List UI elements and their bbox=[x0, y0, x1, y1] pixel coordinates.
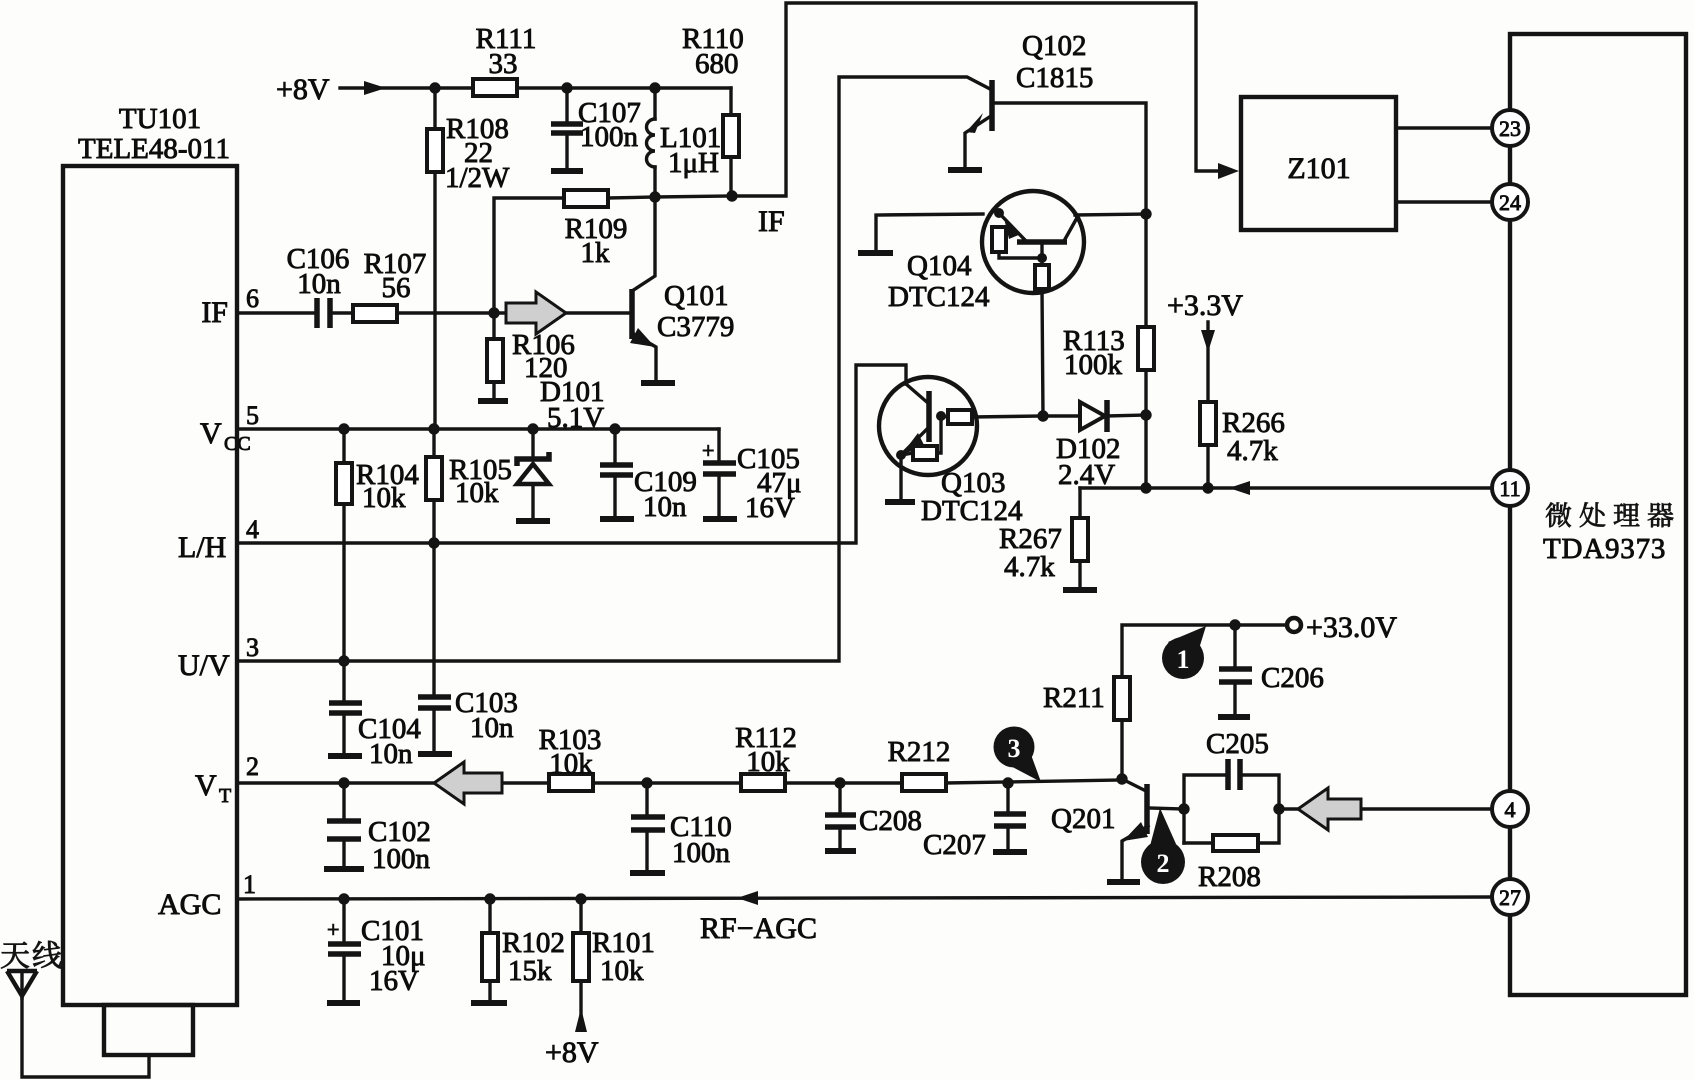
resistor R211 bbox=[1043, 625, 1235, 779]
node VT C208 bbox=[834, 777, 845, 788]
svg-text:R212: R212 bbox=[888, 736, 951, 768]
node C205/R208 right bbox=[1273, 803, 1284, 814]
tuner pin 6 label IF bbox=[201, 284, 259, 329]
svg-text:Q201: Q201 bbox=[1051, 803, 1115, 835]
svg-text:4: 4 bbox=[1505, 797, 1516, 822]
node U/V R104/C104 bbox=[338, 655, 349, 666]
svg-text:24: 24 bbox=[1499, 190, 1521, 215]
svg-text:C207: C207 bbox=[923, 829, 986, 861]
transistor Q103 DTC124 bbox=[879, 377, 1043, 527]
wire L/H pin 4 bbox=[237, 365, 906, 543]
node VT C102 bbox=[338, 777, 349, 788]
svg-text:C205: C205 bbox=[1206, 728, 1269, 760]
svg-text:3: 3 bbox=[246, 633, 259, 662]
signal arrow on pin 4 line bbox=[1298, 788, 1361, 830]
svg-text:T: T bbox=[219, 785, 231, 807]
node AGC C101 bbox=[338, 893, 349, 904]
+3.3V supply to R266 bbox=[1167, 289, 1243, 402]
node Vcc C109 bbox=[609, 423, 620, 434]
inductor L101 bbox=[647, 88, 722, 197]
ground Q102 bbox=[948, 167, 982, 173]
node Vcc R104 bbox=[338, 423, 349, 434]
svg-text:+3.3V: +3.3V bbox=[1167, 289, 1243, 322]
resistor R110 bbox=[682, 23, 744, 196]
node pin11/R113 bbox=[1140, 482, 1151, 493]
svg-text:+: + bbox=[702, 438, 714, 463]
svg-text:2.4V: 2.4V bbox=[1058, 459, 1115, 491]
pin 23 bbox=[1492, 110, 1528, 146]
transistor Q201 bbox=[1051, 779, 1183, 879]
resistor R108 bbox=[427, 88, 510, 429]
wire IF node to Z101 (top route) bbox=[732, 3, 1239, 196]
node L/H R105 bbox=[428, 537, 439, 548]
pin 4 bbox=[1492, 791, 1528, 827]
svg-text:RF−AGC: RF−AGC bbox=[700, 912, 817, 945]
ground C103 bbox=[418, 751, 452, 757]
node D102 anode / Q103 base bbox=[1037, 410, 1048, 421]
wire AGC pin 1 / pin 27 line bbox=[237, 891, 1492, 945]
resistor R113 bbox=[1063, 214, 1154, 414]
svg-text:4: 4 bbox=[246, 515, 259, 544]
node Vcc R105 bbox=[428, 423, 439, 434]
capacitor C110 bbox=[631, 783, 732, 871]
svg-text:10n: 10n bbox=[369, 738, 413, 770]
node AGC R101 bbox=[575, 893, 586, 904]
+8V supply label bbox=[276, 73, 330, 106]
wire Z101 pin24 bbox=[1396, 200, 1492, 203]
transistor Q104 DTC124 bbox=[876, 191, 1146, 416]
node IF out (L101 bottom) bbox=[649, 191, 660, 202]
label IF out bbox=[758, 205, 785, 238]
ground C109 bbox=[600, 516, 634, 522]
antenna symbol bbox=[7, 971, 37, 998]
+33.0V terminal bbox=[1235, 611, 1397, 644]
svg-text:10k: 10k bbox=[549, 748, 593, 780]
svg-text:C1815: C1815 bbox=[1016, 62, 1093, 94]
svg-text:56: 56 bbox=[382, 272, 411, 304]
svg-text:10n: 10n bbox=[470, 712, 514, 744]
svg-text:C3779: C3779 bbox=[657, 311, 734, 343]
svg-text:16V: 16V bbox=[369, 965, 419, 997]
svg-text:5.1V: 5.1V bbox=[547, 402, 604, 434]
svg-text:1: 1 bbox=[243, 870, 256, 899]
wire IF node to R110 bbox=[655, 196, 732, 197]
svg-text:TU101: TU101 bbox=[119, 103, 201, 135]
svg-text:V: V bbox=[195, 769, 217, 802]
svg-text:10k: 10k bbox=[746, 746, 790, 778]
ground Q104 bbox=[858, 250, 893, 256]
tuner sub-box (RF connector) bbox=[104, 1005, 193, 1055]
svg-text:V: V bbox=[200, 417, 222, 450]
svg-text:10n: 10n bbox=[297, 268, 341, 300]
node Q102/Q104 collectors bbox=[1140, 208, 1151, 219]
resistor R212 bbox=[888, 736, 951, 791]
svg-text:100n: 100n bbox=[372, 843, 431, 875]
tuner pin 3 label U/V bbox=[178, 633, 259, 682]
node C206 top bbox=[1229, 619, 1240, 630]
ground C207 bbox=[993, 849, 1027, 855]
signal arrow on VT line bbox=[434, 762, 502, 804]
resistor R109 feedback bbox=[494, 190, 655, 313]
svg-text:1k: 1k bbox=[581, 237, 611, 269]
ground Q103 bbox=[885, 499, 915, 505]
tuner pin 5 label Vcc bbox=[200, 401, 259, 455]
svg-text:R211: R211 bbox=[1043, 682, 1105, 714]
ground R102 bbox=[471, 1000, 507, 1006]
wire U/V pin 3 bbox=[237, 77, 990, 661]
transistor Q101 bbox=[630, 197, 734, 381]
resistor R105 bbox=[426, 429, 512, 543]
node R106/R109/base bbox=[488, 307, 499, 318]
svg-text:33: 33 bbox=[489, 48, 518, 80]
ground C110 bbox=[630, 870, 665, 876]
wire VT pin 2 line bbox=[237, 780, 1122, 783]
svg-text:1/2W: 1/2W bbox=[445, 162, 510, 194]
svg-text:C208: C208 bbox=[859, 805, 922, 837]
wire +8V rail bbox=[435, 86, 731, 89]
svg-text:Q102: Q102 bbox=[1022, 30, 1086, 62]
tuner pin 4 label L/H bbox=[178, 515, 259, 564]
svg-text:4.7k: 4.7k bbox=[1004, 551, 1055, 583]
svg-text:Q101: Q101 bbox=[664, 280, 728, 312]
ground C208 bbox=[825, 848, 856, 854]
signal arrow on IF base line bbox=[506, 292, 566, 334]
node +8V rail junction R108 bbox=[429, 82, 440, 93]
tuner pin 2 label VT bbox=[195, 752, 259, 807]
svg-text:10k: 10k bbox=[600, 955, 644, 987]
svg-text:100n: 100n bbox=[672, 837, 731, 869]
wire IF input pin 6 bbox=[237, 311, 315, 314]
capacitor C104 bbox=[329, 661, 421, 770]
svg-text:DTC124: DTC124 bbox=[888, 281, 990, 313]
svg-text:Q104: Q104 bbox=[907, 250, 972, 282]
svg-text:AGC: AGC bbox=[158, 888, 221, 921]
resistor R101 bbox=[573, 899, 655, 1027]
ground Q201 bbox=[1107, 879, 1140, 885]
resistor R112 bbox=[735, 722, 797, 791]
diode D102 bbox=[1043, 400, 1146, 491]
wire +8V feed with arrow bbox=[340, 81, 435, 95]
svg-text:100n: 100n bbox=[580, 121, 639, 153]
ground C105 bbox=[703, 516, 737, 522]
tuner pin 1 label AGC bbox=[158, 870, 256, 921]
ground C206 bbox=[1218, 714, 1250, 720]
tuner box TU101 bbox=[63, 103, 237, 1005]
svg-text:10n: 10n bbox=[643, 491, 687, 523]
svg-text:CC: CC bbox=[224, 433, 251, 455]
svg-text:IF: IF bbox=[758, 205, 785, 238]
svg-text:2: 2 bbox=[246, 752, 259, 781]
svg-text:15k: 15k bbox=[508, 955, 552, 987]
capacitor C106 bbox=[287, 243, 353, 328]
svg-text:Z101: Z101 bbox=[1287, 152, 1350, 185]
ground C102 bbox=[324, 866, 364, 872]
ground C107 bbox=[551, 168, 583, 174]
resistor R104 bbox=[336, 429, 419, 664]
pin 24 bbox=[1492, 184, 1528, 220]
svg-text:1: 1 bbox=[1177, 645, 1190, 674]
wire R113 node to pin 11 line bbox=[1144, 415, 1147, 488]
svg-text:680: 680 bbox=[695, 48, 739, 80]
svg-text:+8V: +8V bbox=[276, 73, 330, 106]
svg-text:IF: IF bbox=[201, 296, 228, 329]
node C205/R208 left bbox=[1178, 803, 1189, 814]
node AGC R102 bbox=[484, 893, 495, 904]
svg-text:23: 23 bbox=[1499, 116, 1521, 141]
node pin11/R266 bbox=[1202, 482, 1213, 493]
callout 2 bbox=[1141, 808, 1185, 884]
block Z101 bbox=[1241, 97, 1396, 230]
capacitor C107 bbox=[551, 88, 641, 168]
+8V feed at R101 bottom bbox=[545, 1008, 599, 1069]
label 天线 (antenna) bbox=[1, 941, 61, 969]
resistor R267 bbox=[999, 488, 1088, 588]
svg-text:11: 11 bbox=[1499, 476, 1520, 501]
node VT C110 bbox=[641, 777, 652, 788]
node Vcc D101 bbox=[527, 423, 538, 434]
svg-text:L/H: L/H bbox=[178, 531, 226, 564]
callout 1 bbox=[1162, 626, 1206, 679]
capacitor C206 bbox=[1219, 625, 1324, 715]
resistor R107 bbox=[353, 248, 494, 322]
wire Vcc pin 5 rail bbox=[237, 427, 719, 430]
svg-text:TDA9373: TDA9373 bbox=[1543, 533, 1666, 565]
capacitor C103 bbox=[418, 543, 518, 752]
resistor R103 bbox=[539, 724, 602, 791]
svg-text:1μH: 1μH bbox=[668, 147, 719, 179]
node Q201 base bbox=[1116, 773, 1127, 784]
svg-text:27: 27 bbox=[1499, 885, 1521, 910]
svg-text:U/V: U/V bbox=[178, 649, 230, 682]
node VT C207 / callout 3 bbox=[1002, 777, 1013, 788]
svg-text:6: 6 bbox=[246, 284, 259, 313]
ground D101 bbox=[516, 518, 550, 524]
wire antenna to sub-box bbox=[22, 996, 149, 1077]
resistor R266 bbox=[1200, 402, 1285, 488]
capacitor C102 bbox=[327, 783, 431, 875]
callout 3 bbox=[994, 727, 1042, 783]
resistor R208 bbox=[1198, 835, 1261, 893]
wire pin 4 line bbox=[1279, 807, 1492, 810]
capacitor C109 bbox=[600, 429, 697, 523]
svg-text:3: 3 bbox=[1008, 734, 1021, 763]
svg-text:TELE48-011: TELE48-011 bbox=[78, 133, 230, 165]
resistor R102 bbox=[482, 899, 565, 1000]
transistor Q102 bbox=[965, 30, 1146, 214]
wire pin 11 line bbox=[1080, 481, 1492, 495]
ground R106 bbox=[478, 398, 508, 404]
svg-text:10k: 10k bbox=[455, 477, 499, 509]
node D102 cathode / R113 bbox=[1140, 409, 1151, 420]
ground R267 bbox=[1063, 587, 1097, 593]
svg-text:16V: 16V bbox=[745, 492, 795, 524]
node R110 bottom bbox=[726, 190, 737, 201]
svg-text:+8V: +8V bbox=[545, 1036, 599, 1069]
ground C101 bbox=[327, 1000, 360, 1006]
pin 27 bbox=[1492, 879, 1528, 915]
node L101 top bbox=[649, 82, 660, 93]
svg-text:100k: 100k bbox=[1064, 349, 1123, 381]
ground C104 bbox=[328, 753, 362, 759]
node C107 top bbox=[561, 82, 572, 93]
capacitor C101 electrolytic bbox=[327, 899, 426, 1001]
ground Q101 bbox=[641, 380, 675, 386]
svg-text:+33.0V: +33.0V bbox=[1306, 611, 1397, 644]
svg-text:4.7k: 4.7k bbox=[1227, 435, 1278, 467]
capacitor C208 bbox=[825, 783, 922, 849]
IC TDA9373 box bbox=[1510, 34, 1686, 995]
capacitor C205 with R208 loop bbox=[1184, 728, 1279, 843]
svg-text:10k: 10k bbox=[362, 482, 406, 514]
svg-text:5: 5 bbox=[246, 401, 259, 430]
svg-text:C206: C206 bbox=[1261, 662, 1324, 694]
svg-text:+: + bbox=[327, 917, 339, 942]
label 微处理器 (microprocessor) bbox=[1546, 502, 1673, 527]
resistor R106 bbox=[487, 313, 575, 398]
resistor R111 bbox=[473, 23, 536, 96]
capacitor C105 electrolytic bbox=[702, 429, 802, 524]
svg-text:R208: R208 bbox=[1198, 861, 1261, 893]
zener D101 bbox=[517, 376, 604, 518]
wire base line bbox=[494, 311, 629, 314]
svg-text:2: 2 bbox=[1157, 849, 1170, 878]
wire Z101 pin23 bbox=[1396, 126, 1492, 129]
capacitor C207 bbox=[923, 783, 1026, 861]
pin 11 bbox=[1492, 470, 1528, 506]
